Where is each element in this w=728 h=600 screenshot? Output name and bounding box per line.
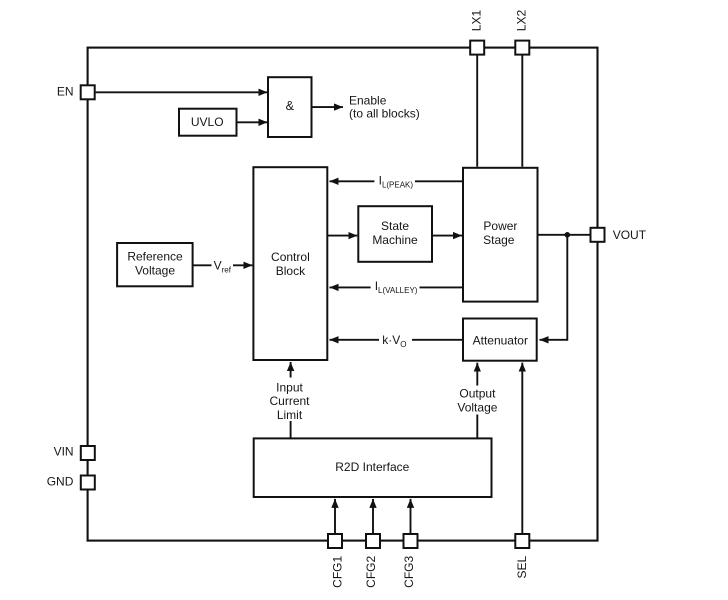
- svg-text:Power: Power: [483, 219, 517, 233]
- svg-text:Output: Output: [459, 387, 496, 401]
- wire Vref arrow into Control Block: [233, 264, 252, 266]
- pin VOUT: [591, 228, 605, 242]
- svg-text:Current: Current: [269, 394, 310, 408]
- svg-text:&: &: [286, 99, 295, 113]
- svg-text:LX1: LX1: [469, 10, 483, 32]
- wire input current limit from R2D Interface: [290, 421, 292, 438]
- svg-text:VIN: VIN: [54, 445, 74, 459]
- svg-text:Machine: Machine: [372, 233, 418, 247]
- wire output voltage from R2D Interface: [476, 415, 478, 439]
- svg-text:Stage: Stage: [483, 233, 515, 247]
- wire EN to AND gate: [96, 91, 268, 93]
- svg-text:Control: Control: [271, 250, 310, 264]
- pin CFG3: [404, 534, 418, 548]
- wire Enable output: [313, 106, 344, 108]
- block State Machine: [358, 206, 432, 262]
- svg-text:CFG2: CFG2: [364, 555, 378, 587]
- wire Power Stage to VOUT pin: [538, 234, 591, 236]
- wire CFG1 to R2D: [334, 499, 336, 534]
- svg-text:(to all blocks): (to all blocks): [349, 107, 420, 121]
- block Attenuator: [463, 319, 537, 361]
- wire Control Block to State Machine: [327, 235, 357, 237]
- pin CFG2: [366, 534, 380, 548]
- junction node on VOUT wire: [565, 232, 571, 238]
- pin LX2: [515, 41, 529, 55]
- svg-text:State: State: [381, 219, 409, 233]
- wire IL(PEAK) arrow into Control Block: [330, 180, 375, 182]
- block UVLO: [179, 109, 237, 136]
- pin GND: [81, 476, 95, 490]
- svg-text:CFG1: CFG1: [330, 555, 344, 587]
- pin LX1: [470, 41, 484, 55]
- svg-text:LX2: LX2: [515, 10, 529, 32]
- wire CFG3 to R2D: [410, 499, 412, 534]
- svg-text:Voltage: Voltage: [457, 400, 497, 414]
- svg-text:Reference: Reference: [127, 250, 183, 264]
- wire IL(PEAK) segment from Power Stage: [415, 180, 462, 182]
- wire k.Vo arrow into Control Block: [330, 339, 380, 341]
- pin SEL: [515, 534, 529, 548]
- wire IL(VALLEY) segment from Power Stage: [420, 286, 463, 288]
- svg-text:SEL: SEL: [515, 555, 529, 578]
- svg-text:Input: Input: [276, 380, 303, 394]
- pin CFG1: [328, 534, 342, 548]
- svg-text:VOUT: VOUT: [613, 228, 647, 242]
- svg-text:Limit: Limit: [277, 408, 303, 422]
- wire State Machine to Power Stage: [432, 235, 462, 237]
- svg-text:Enable: Enable: [349, 93, 387, 107]
- wire CFG2 to R2D: [372, 499, 374, 534]
- wire k.Vo segment from Attenuator: [412, 339, 463, 341]
- wire LX2 to Power Stage: [521, 55, 523, 167]
- block Reference Voltage: [117, 243, 193, 286]
- pin EN: [81, 85, 95, 99]
- wire input current limit arrow into Control Block: [290, 362, 292, 378]
- svg-text:IL(PEAK): IL(PEAK): [379, 173, 414, 189]
- svg-text:k·VO: k·VO: [382, 333, 406, 349]
- svg-text:GND: GND: [47, 475, 74, 489]
- svg-text:UVLO: UVLO: [191, 115, 224, 129]
- wire Reference Voltage to Vref label: [193, 264, 212, 266]
- chip boundary: [88, 48, 598, 541]
- AND gate U1: [268, 77, 312, 137]
- wire UVLO to AND gate: [238, 121, 268, 123]
- block R2D Interface: [254, 438, 492, 497]
- pin VIN: [81, 446, 95, 460]
- svg-text:CFG3: CFG3: [402, 555, 416, 587]
- wire LX1 to Power Stage: [476, 55, 478, 167]
- svg-text:EN: EN: [57, 84, 74, 98]
- svg-text:Block: Block: [276, 264, 306, 278]
- svg-text:R2D Interface: R2D Interface: [335, 460, 409, 474]
- wire feedback from junction down to Attenuator: [540, 235, 568, 340]
- wire IL(VALLEY) arrow into Control Block: [330, 286, 371, 288]
- block Control Block: [253, 167, 327, 360]
- svg-text:IL(VALLEY): IL(VALLEY): [375, 279, 418, 295]
- wire SEL to Attenuator: [521, 363, 523, 534]
- block Power Stage: [463, 168, 538, 302]
- svg-text:Voltage: Voltage: [135, 264, 175, 278]
- svg-text:Vref: Vref: [214, 258, 232, 274]
- wire output voltage arrow into Attenuator: [476, 363, 478, 386]
- svg-text:Attenuator: Attenuator: [473, 333, 528, 347]
